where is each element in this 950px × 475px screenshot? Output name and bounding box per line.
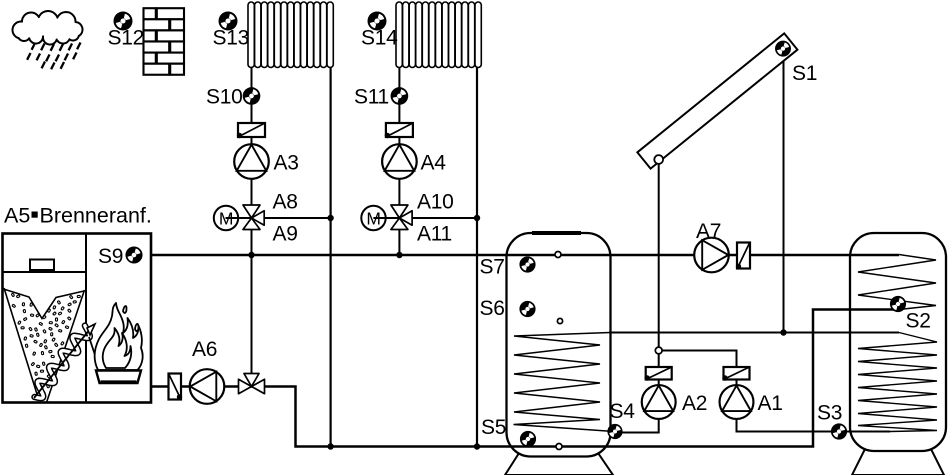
cloud with rain [13,11,83,69]
svg-text:S9: S9 [98,245,123,268]
svg-text:A3: A3 [274,152,299,175]
svg-text:A7: A7 [696,220,721,243]
sensor S14 [368,12,387,31]
buffer tank top flange [532,231,581,235]
buffer tank foot [505,450,613,475]
brick wall [144,8,185,75]
svg-text:A9: A9 [273,223,298,246]
pump A4 [382,144,417,179]
sensor S1 [775,41,791,57]
hopper funnel left wall [4,288,39,399]
pellet pile surface [4,289,85,319]
check valve A7 [736,243,750,270]
svg-text:A4: A4 [421,152,447,175]
svg-text:A2: A2 [682,392,707,415]
check valve circuit 1 [237,123,265,138]
svg-text:A10: A10 [417,191,453,214]
sensor S6 [519,301,535,317]
node: mixer2 tap [396,252,402,258]
svg-text:S11: S11 [354,86,389,109]
pellets [11,293,80,389]
radiator 2 [396,2,481,68]
node: radiator1 return top [327,215,333,221]
svg-text:S3: S3 [817,402,842,425]
svg-text:S12: S12 [108,27,144,50]
DHW bottom coil [858,333,937,432]
mixer valve A10/A11 [373,205,412,230]
wire: pump A2 suction [613,419,659,433]
node: radiator2 return top [474,215,480,221]
svg-text:Brenneranf.: Brenneranf. [40,204,152,228]
auger screw [35,326,90,399]
burner tray [96,371,141,384]
sensor S2 [890,296,906,312]
motor M2 [361,206,385,230]
wire: radiator 1 return [330,64,332,447]
boiler divider [85,234,87,403]
svg-text:A11: A11 [417,223,452,246]
sensor S10 [243,87,261,105]
radiator 1 [248,2,333,68]
svg-text:S10: S10 [206,86,242,109]
flame [95,303,143,370]
wire: solar feed line [609,332,899,334]
port: collector return [654,155,663,164]
sensor S11 [391,87,409,105]
pump A7 [694,238,729,273]
node: solar tee [780,329,786,335]
sensor S3 [831,423,847,439]
wire: solar return tee [659,351,737,387]
sensor S13 [219,12,238,31]
motor M1 [214,206,238,230]
auger shaft [34,326,93,399]
sensor S4 [607,424,622,439]
sensor S5 [520,431,536,447]
pump A1 [720,385,754,419]
wire: radiator 2 return [476,64,478,447]
boiler 3-way valve [239,374,265,394]
svg-text:A8: A8 [273,191,298,214]
svg-text:S6: S6 [480,297,505,320]
sensor S12 [114,12,133,31]
node: mixer1 tap [248,252,254,258]
svg-text:A6: A6 [192,338,217,361]
port: buffer bottom [556,444,562,450]
check valve A1 [722,367,749,381]
boiler A5 body [3,234,152,403]
wire: heating circuit 2 riser [398,64,400,255]
wire: pump A1 suction [737,419,891,432]
svg-text:S4: S4 [610,400,636,423]
auger tip [87,324,95,335]
burner chute [89,337,101,372]
svg-text:S2: S2 [906,310,931,333]
DHW tank [850,233,946,451]
port: buffer top [555,252,561,258]
port: buffer middle [557,318,562,323]
svg-text:S1: S1 [792,62,817,85]
check valve circuit 2 [385,123,413,138]
collector panel [637,33,797,168]
DHW top coil [858,255,936,310]
boiler lid handle [30,260,54,271]
pump A3 [234,144,269,179]
node: radiator1 return bottom [327,443,333,449]
svg-text:S14: S14 [361,27,398,50]
pump A6 [190,369,225,404]
pump A2 [642,385,676,419]
svg-text:A1: A1 [758,392,783,415]
buffer tank [507,233,611,457]
svg-text:A5: A5 [4,204,30,228]
sensor S7 [519,256,535,272]
DHW tank foot [852,447,944,475]
wire: boiler return bottom main [151,310,899,447]
sensor S9 [125,246,142,263]
mixer valve A8/A9 [226,205,265,230]
svg-text:S13: S13 [213,27,249,50]
wire: collector hot pipe [783,56,785,333]
node: radiator2 return bottom [474,443,480,449]
boiler hopper lid line [3,271,87,273]
check valve A6 [169,374,183,400]
port: solar return tee circle [655,347,662,354]
svg-text:S5: S5 [481,416,506,439]
svg-text:S7: S7 [480,256,505,279]
buffer coil [514,333,615,432]
hopper funnel right wall [47,290,85,403]
wire: mixer 2 output [399,217,477,219]
wire: heating circuit 1 riser [251,64,253,374]
check valve A2 [645,367,672,381]
wire: mixer 1 output [252,217,332,219]
wire: collector return pipe [658,161,660,386]
wire: boiler supply line y=255 [134,254,899,256]
